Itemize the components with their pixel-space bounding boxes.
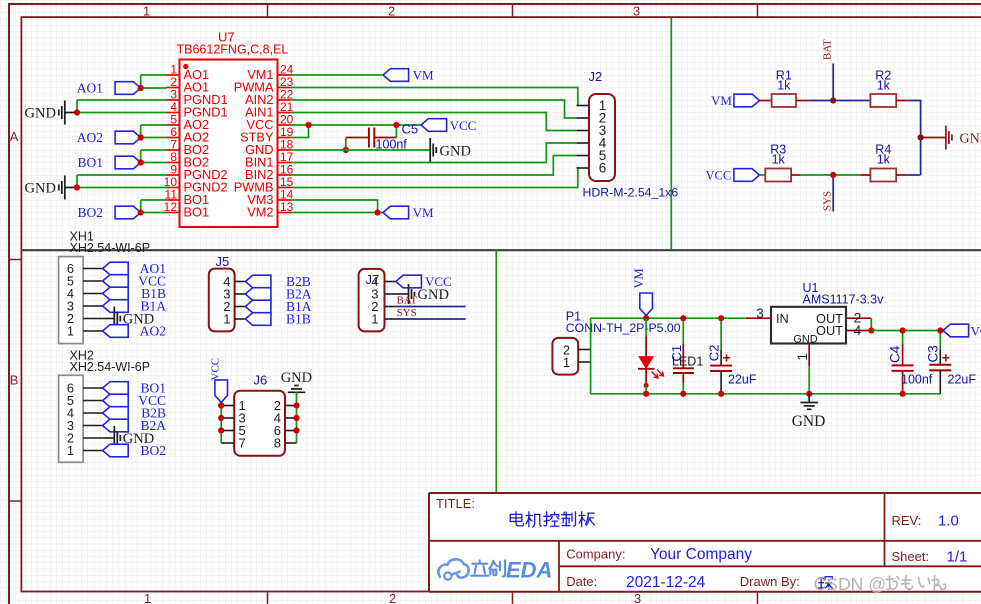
svg-text:Sheet:: Sheet: — [892, 549, 930, 564]
wire BO1 to U7 — [141, 150, 167, 163]
LED LED1 — [638, 318, 703, 394]
svg-text:2: 2 — [389, 591, 396, 604]
net flag VCC J7 pin4 — [396, 274, 452, 289]
wire section divider horizontal — [21, 249, 981, 251]
net flag B1A J5 — [245, 299, 311, 314]
junction U1 GND — [806, 391, 812, 397]
wire GND to U7 — [77, 175, 167, 188]
svg-text:J2: J2 — [589, 69, 603, 84]
title block — [429, 493, 981, 592]
net flag B2A J5 — [245, 287, 311, 302]
svg-text:SYS: SYS — [822, 191, 834, 211]
net flag B1B J5 — [245, 312, 310, 327]
svg-text:CSDN @: CSDN @ — [814, 574, 887, 594]
wire VM to R1 — [760, 100, 772, 102]
net flag B1A XH1 pin3 — [103, 299, 167, 314]
net flag AO1 — [77, 81, 141, 96]
wire GND bottom rail — [591, 393, 941, 395]
junction C3 top — [937, 327, 943, 333]
net flag VM pin13 — [383, 205, 434, 220]
svg-text:8: 8 — [274, 436, 281, 451]
wire VCC rail J6 — [220, 402, 222, 443]
svg-text:GND: GND — [440, 144, 471, 160]
svg-text:BAT: BAT — [397, 295, 418, 307]
junction VM — [375, 209, 381, 215]
capacitor C3 22uF — [925, 331, 976, 394]
wire GND to U7 — [77, 100, 167, 113]
junction U1 OUT — [868, 327, 874, 333]
drawn by 琛 — [819, 577, 833, 590]
svg-text:B1B: B1B — [286, 312, 311, 327]
logo LCEDA — [438, 558, 552, 583]
junction R3-R4-SYS — [830, 172, 836, 178]
wire U7 pin21 to J2 pin3 — [291, 113, 577, 131]
svg-text:7: 7 — [239, 436, 246, 451]
wire R4 to GND corner — [860, 174, 920, 176]
wire R1 to BAT node — [796, 100, 870, 102]
wire GND rail J6 — [296, 392, 298, 443]
resistor R1 1k — [772, 69, 796, 108]
svg-text:VM: VM — [711, 93, 732, 108]
junction BO1 — [138, 159, 144, 165]
capacitor C5 100nf — [346, 122, 418, 152]
ground GND PGND2 — [25, 176, 78, 200]
svg-text:SYS: SYS — [397, 307, 417, 319]
svg-text:XH2.54-WI-6P: XH2.54-WI-6P — [70, 241, 151, 255]
junction AO2 — [138, 134, 144, 140]
svg-text:GND: GND — [281, 370, 312, 386]
svg-text:VM: VM — [632, 268, 646, 288]
connector J5 — [209, 254, 246, 331]
junction C5-VCC — [393, 122, 399, 128]
label REV — [892, 513, 959, 530]
net flag B1B XH1 pin4 — [103, 286, 166, 301]
junction C4 bottom — [900, 391, 906, 397]
svg-text:C1: C1 — [669, 345, 684, 362]
net flag VCC output — [943, 324, 981, 339]
connector P1 CONN-TH_2P-P5.00 — [552, 310, 680, 375]
svg-text:+: + — [723, 350, 731, 366]
svg-text:J5: J5 — [216, 254, 230, 269]
svg-text:1: 1 — [67, 323, 74, 338]
net flag BO2 XH2 pin1 — [103, 443, 166, 458]
svg-text:Date:: Date: — [566, 574, 597, 589]
svg-text:1: 1 — [143, 3, 150, 18]
svg-text:VM: VM — [413, 205, 434, 220]
wire U7 pin14 VM3 — [291, 200, 378, 213]
connector XH1 XH2.54-WI-6P — [59, 230, 150, 344]
svg-text:1: 1 — [67, 443, 74, 458]
svg-text:A: A — [10, 129, 19, 144]
svg-text:AO2: AO2 — [77, 130, 103, 145]
net flag B2B J5 — [245, 274, 310, 289]
wire U7 pin13 VM2 — [291, 212, 384, 214]
svg-text:VM: VM — [413, 68, 434, 83]
svg-text:3: 3 — [633, 3, 640, 18]
svg-text:GND: GND — [25, 181, 56, 197]
junction GND — [74, 109, 80, 115]
net flag VCC XH2 pin5 — [103, 393, 166, 408]
svg-text:B: B — [10, 373, 19, 388]
svg-text:IN: IN — [776, 311, 789, 326]
svg-text:1: 1 — [795, 353, 810, 361]
junction C2 top — [718, 315, 724, 321]
svg-text:C3: C3 — [925, 345, 940, 362]
svg-text:C5: C5 — [402, 122, 419, 137]
svg-text:1/1: 1/1 — [947, 549, 968, 566]
svg-text:1k: 1k — [877, 153, 891, 167]
svg-text:3: 3 — [634, 591, 641, 604]
net flag VCC XH1 pin5 — [103, 274, 166, 289]
svg-text:Company:: Company: — [566, 547, 625, 562]
junction LED-GND — [643, 391, 649, 397]
net flag VM pin24 — [383, 68, 434, 83]
svg-text:1k: 1k — [772, 153, 786, 167]
svg-text:C4: C4 — [888, 345, 903, 363]
wire AO2 to U7 — [141, 125, 167, 138]
junction R2-R4-GND — [918, 134, 924, 140]
net flag BO1 XH2 pin6 — [103, 381, 166, 396]
svg-text:BO1: BO1 — [184, 205, 210, 220]
wire U7 pin18 GND — [291, 149, 430, 151]
wire SYS J7 pin1 — [396, 318, 466, 320]
resistor R4 1k — [870, 143, 896, 182]
net flag B2A XH2 pin3 — [103, 418, 167, 433]
title 电机控制板 — [510, 512, 594, 527]
wire VCC to R3 — [760, 174, 766, 176]
svg-text:Your Company: Your Company — [650, 546, 752, 563]
capacitor C2 22uF — [707, 318, 757, 394]
IC U7 TB6612FNG,C,8,EL — [164, 30, 294, 228]
svg-text:+: + — [942, 350, 950, 366]
svg-text:Drawn By:: Drawn By: — [740, 574, 800, 589]
svg-text:2: 2 — [388, 3, 395, 18]
resistor R3 1k — [765, 143, 791, 182]
svg-text:BO1: BO1 — [77, 155, 103, 170]
wire U7 pin16 to J2 pin5 — [291, 156, 577, 176]
svg-text:GND: GND — [25, 106, 56, 122]
svg-text:100nf: 100nf — [901, 373, 933, 387]
svg-text:XH2.54-WI-6P: XH2.54-WI-6P — [70, 360, 151, 374]
wire AO1 to U7 — [141, 75, 167, 88]
junction AO1 — [138, 85, 144, 91]
connector J7 — [359, 269, 396, 332]
net flag VM R1 — [711, 93, 760, 108]
svg-text:1: 1 — [223, 312, 230, 327]
svg-text:AO2: AO2 — [140, 324, 166, 339]
wire U7 pin15 to J2 pin6 — [291, 168, 578, 188]
junction STBY-VCC — [305, 122, 311, 128]
svg-text:AMS1117-3.3v: AMS1117-3.3v — [803, 293, 885, 307]
ground GND PGND1 — [25, 101, 78, 125]
junction C1 bottom — [680, 391, 686, 397]
junction C2 bottom — [718, 391, 724, 397]
regulator U1 AMS1117-3.3v — [746, 281, 884, 366]
svg-text:3: 3 — [756, 306, 764, 321]
ground GND U1 — [792, 394, 826, 430]
net flag B2B XH2 pin4 — [103, 406, 166, 421]
svg-text:1.0: 1.0 — [938, 513, 959, 530]
label Date — [566, 574, 705, 591]
svg-text:6: 6 — [599, 161, 607, 176]
svg-text:J6: J6 — [254, 373, 268, 388]
svg-text:REV:: REV: — [892, 513, 922, 528]
wire SYS stub — [832, 175, 834, 212]
wire U7 pin23 to J2 pin1 — [291, 88, 578, 106]
junction C5-GND — [343, 147, 349, 153]
label Company — [566, 546, 752, 563]
wire BAT J7 pin2 — [396, 306, 466, 308]
svg-text:1k: 1k — [877, 79, 891, 93]
svg-text:2021-12-24: 2021-12-24 — [626, 574, 706, 591]
svg-text:CONN-TH_2P-P5.00: CONN-TH_2P-P5.00 — [566, 321, 681, 335]
svg-text:BO2: BO2 — [77, 205, 103, 220]
svg-text:22uF: 22uF — [728, 373, 757, 387]
ground GND resistor network — [921, 126, 981, 150]
net flag AO2 XH1 pin1 — [103, 324, 166, 339]
wire U7 pin22 to J2 pin2 — [291, 100, 577, 118]
svg-text:TB6612FNG,C,8,EL: TB6612FNG,C,8,EL — [177, 43, 289, 57]
svg-text:BO2: BO2 — [140, 443, 166, 458]
svg-text:TITLE:: TITLE: — [436, 496, 475, 511]
svg-text:22uF: 22uF — [948, 373, 977, 387]
wire R2 to GND corner — [896, 101, 920, 176]
junction R1-R2-BAT — [830, 97, 836, 103]
connector XH2 XH2.54-WI-6P — [59, 348, 150, 462]
ground GND XH1 pin2 — [103, 307, 155, 331]
connector J6 — [221, 373, 296, 456]
label Sheet — [892, 549, 968, 566]
wire section divider vertical right — [670, 18, 672, 250]
ground GND J6 — [281, 370, 312, 392]
net flag VCC J6 — [210, 358, 228, 403]
svg-text:EDA: EDA — [506, 558, 552, 583]
net flag BO1 — [77, 155, 140, 170]
wire R3 to SYS node — [791, 174, 860, 176]
wire U1 GND down — [808, 366, 810, 394]
junction VM-LED — [643, 315, 649, 321]
svg-text:GND: GND — [418, 287, 449, 303]
svg-text:VCC: VCC — [971, 324, 981, 339]
wire C5 to GND net — [345, 138, 347, 151]
net flag VM power — [632, 268, 652, 315]
wire BAT stub — [832, 64, 834, 101]
net flag AO1 XH1 pin6 — [103, 261, 166, 276]
svg-text:GND: GND — [792, 413, 826, 430]
capacitor C4 100nf — [888, 331, 933, 394]
wire U1 OUT2 to OUT4 — [870, 318, 872, 330]
wire C5 to VCC net — [395, 125, 397, 138]
wire VCC out rail — [871, 330, 943, 332]
svg-text:HDR-M-2.54_1x6: HDR-M-2.54_1x6 — [583, 186, 679, 200]
net flag BO2 — [77, 205, 140, 220]
wire BO2 to U7 — [141, 200, 167, 213]
svg-text:1k: 1k — [777, 79, 791, 93]
wire U7 pin17 to J2 pin4 — [291, 143, 577, 163]
watermark CSDN — [814, 574, 946, 594]
resistor R2 1k — [870, 69, 896, 108]
svg-text:4: 4 — [854, 323, 862, 338]
wire section divider vertical left — [495, 250, 497, 493]
svg-text:GND: GND — [793, 334, 818, 346]
svg-text:VCC: VCC — [450, 118, 477, 133]
wire VM top rail — [591, 317, 746, 319]
ground GND XH2 pin2 — [103, 426, 155, 450]
junction GND — [74, 184, 80, 190]
junction BO2 — [138, 209, 144, 215]
ground GND pin18 — [430, 138, 471, 162]
wire P1 to rails — [590, 318, 592, 394]
net flag VCC pin20 — [421, 118, 476, 133]
junction J6 pins 2,4,6 — [293, 402, 299, 433]
svg-text:VCC: VCC — [706, 169, 732, 183]
wire U7 pin19 STBY to VCC — [291, 125, 309, 138]
svg-text:1: 1 — [371, 312, 378, 327]
svg-text:1: 1 — [144, 591, 151, 604]
svg-text:OUT: OUT — [816, 323, 843, 338]
svg-text:VM2: VM2 — [247, 205, 273, 220]
svg-text:VCC: VCC — [210, 358, 222, 381]
junction J6 pins 1,3,5 — [218, 402, 224, 433]
ground GND J7 pin3 — [396, 284, 449, 304]
svg-text:1: 1 — [563, 355, 570, 370]
wire U7 pin24 to VM — [291, 74, 384, 76]
capacitor C1 — [669, 318, 694, 394]
junction C4 top — [900, 327, 906, 333]
net flag AO2 — [77, 130, 141, 145]
connector J2 HDR-M-2.54_1x6 — [577, 69, 679, 200]
net flag VCC R3 — [706, 169, 760, 183]
junction C1 top — [680, 315, 686, 321]
wire U7 pin20 VCC — [291, 124, 422, 126]
svg-text:C2: C2 — [707, 345, 722, 362]
svg-text:AO1: AO1 — [77, 81, 103, 96]
svg-text:BAT: BAT — [822, 39, 834, 60]
svg-text:GND: GND — [960, 132, 981, 147]
